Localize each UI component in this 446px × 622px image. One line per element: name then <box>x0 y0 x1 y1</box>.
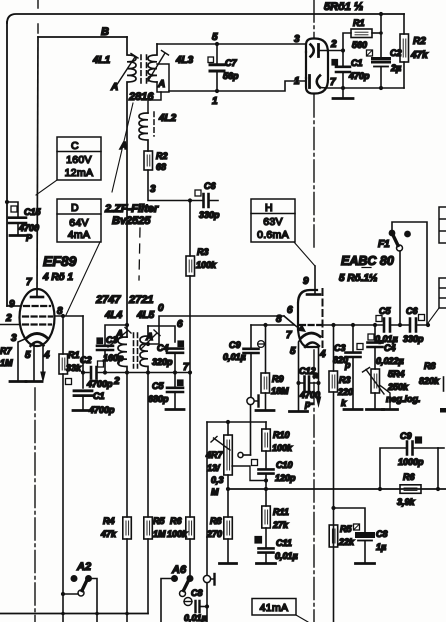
pin 5 wire to ground <box>33 344 35 380</box>
svg-text:A: A <box>157 79 165 90</box>
svg-text:R5: R5 <box>153 516 165 526</box>
ground 5R4 <box>374 393 376 408</box>
svg-text:R7: R7 <box>0 346 12 356</box>
resistor R5 22k <box>329 525 338 547</box>
svg-text:4L3: 4L3 <box>175 55 194 66</box>
svg-text:R9: R9 <box>272 374 284 384</box>
svg-text:4 Rö 1: 4 Rö 1 <box>42 272 73 283</box>
pin 9 wire <box>314 266 316 294</box>
trimmer arrow 4L5 <box>141 330 160 349</box>
ground C5 <box>166 408 184 411</box>
svg-text:4700: 4700 <box>18 223 39 233</box>
svg-text:0,01µ: 0,01µ <box>184 613 207 622</box>
tube diode V1 outline <box>306 39 328 94</box>
svg-text:4R7: 4R7 <box>205 450 224 460</box>
svg-text:5: 5 <box>25 350 31 361</box>
svg-text:R10: R10 <box>273 430 290 440</box>
coil 4L3 <box>148 44 157 82</box>
wire grid input pin 2 <box>0 324 20 326</box>
svg-text:0,022µ: 0,022µ <box>376 356 404 366</box>
wire step 4L3 to 4L2 <box>148 92 161 113</box>
svg-text:C3: C3 <box>334 343 346 353</box>
node C15 junction <box>5 200 9 204</box>
ground R8 270 <box>220 562 237 565</box>
svg-text:3: 3 <box>11 333 17 344</box>
wire A6 unused contact <box>161 579 175 622</box>
diode D2 cathode arc pin 7 <box>317 76 320 88</box>
wire rail to C2 <box>380 14 382 57</box>
jack tape out <box>203 575 210 582</box>
divider dashes inside tube <box>305 57 307 76</box>
svg-text:320p: 320p <box>152 357 173 367</box>
grid dashes EABC80 <box>300 324 322 326</box>
capacitor C9 0.01u <box>250 325 252 348</box>
svg-text:0,01µ: 0,01µ <box>275 551 298 561</box>
connector box fragment top <box>439 207 446 243</box>
wire R3 down <box>189 276 191 373</box>
wire pin8 down <box>82 316 84 388</box>
wire A2 fixed <box>63 593 78 595</box>
svg-text:4mA: 4mA <box>68 229 91 241</box>
svg-text:R2: R2 <box>413 36 426 47</box>
core dashes 4L1-4L3 <box>141 55 147 83</box>
svg-text:C4: C4 <box>384 343 396 353</box>
svg-text:C1: C1 <box>351 58 363 68</box>
pin 5 wire <box>299 338 302 410</box>
svg-text:5R4: 5R4 <box>388 369 405 379</box>
svg-text:A: A <box>115 329 123 340</box>
svg-text:1M: 1M <box>0 358 13 368</box>
trimmer marker C8 <box>184 598 192 606</box>
ground C8 <box>356 562 375 565</box>
svg-text:EF89: EF89 <box>43 253 77 269</box>
node filter bottom 4L4 <box>125 370 129 374</box>
core dash 4L2 <box>153 112 155 136</box>
leader dashed filter <box>139 228 140 280</box>
capacitor C8 1u electrolytic <box>334 508 366 533</box>
leader line filter <box>112 103 133 192</box>
svg-text:5: 5 <box>212 32 218 43</box>
node B corner wire to 4L1 <box>38 36 127 38</box>
node R1 right <box>379 31 383 35</box>
ground C1 <box>73 409 93 412</box>
coil 4L5 <box>140 326 148 373</box>
capacitor C7 56p <box>216 44 218 91</box>
node pin8 junction <box>61 314 65 318</box>
svg-text:C8: C8 <box>191 588 203 598</box>
grid g1 dashes pin 2 <box>23 323 51 325</box>
capacitor C3 820p <box>351 323 355 327</box>
svg-text:470p: 470p <box>348 71 370 81</box>
svg-text:5: 5 <box>290 346 296 357</box>
node 4L4 top <box>125 323 129 327</box>
wire top supply rail <box>7 14 404 23</box>
svg-text:3,9k: 3,9k <box>397 497 416 507</box>
svg-text:C8: C8 <box>376 529 388 539</box>
cathode arcs EABC80 <box>301 333 320 338</box>
pointer H box <box>294 242 315 266</box>
svg-text:1M: 1M <box>153 529 166 539</box>
capacitor C6 330p <box>410 319 416 332</box>
node F1 drop <box>398 323 402 327</box>
svg-text:270: 270 <box>206 529 222 539</box>
svg-text:2: 2 <box>5 313 12 324</box>
svg-text:22k: 22k <box>338 537 355 547</box>
svg-text:R3: R3 <box>339 375 351 385</box>
svg-text:680p: 680p <box>148 394 169 404</box>
connector box fragment mid <box>439 278 446 308</box>
svg-text:1: 1 <box>294 76 300 87</box>
svg-text:A6: A6 <box>171 564 187 576</box>
svg-text:18M: 18M <box>271 386 289 396</box>
box H 63V 0.6mA <box>251 199 295 242</box>
pin 4 heater arrow <box>42 344 44 374</box>
svg-text:560: 560 <box>352 40 367 50</box>
wire R3 220k down <box>333 392 335 622</box>
svg-text:A: A <box>119 141 127 152</box>
capacitor C4 0.022u <box>373 323 377 327</box>
svg-text:p·: p· <box>304 399 314 409</box>
svg-text:H: H <box>265 202 273 214</box>
svg-text:4L1: 4L1 <box>92 55 111 66</box>
jack pickup <box>247 397 254 404</box>
pointer D box <box>66 242 100 315</box>
svg-text:M: M <box>211 487 219 497</box>
svg-text:47k: 47k <box>100 529 117 539</box>
svg-text:4L5: 4L5 <box>136 310 155 321</box>
svg-text:C1: C1 <box>93 391 105 401</box>
svg-text:2721: 2721 <box>128 294 153 306</box>
svg-text:C: C <box>71 140 79 152</box>
svg-text:R11: R11 <box>273 507 289 517</box>
svg-text:F1: F1 <box>378 239 390 250</box>
svg-text:5 Rö.1½: 5 Rö.1½ <box>339 273 377 284</box>
svg-text:2.ZF-Filter: 2.ZF-Filter <box>104 203 159 215</box>
diode D1 cathode arc <box>311 45 314 57</box>
ground C3 <box>344 408 362 411</box>
svg-text:0,3: 0,3 <box>211 475 224 485</box>
node C9 right <box>436 487 440 491</box>
svg-text:k: k <box>341 398 347 408</box>
pointer 41mA <box>296 615 308 622</box>
svg-text:C6: C6 <box>406 306 418 316</box>
svg-text:R4: R4 <box>103 516 115 526</box>
svg-text:220: 220 <box>337 387 353 397</box>
resistor R3 220k <box>331 323 335 327</box>
divider dash-dot top-left <box>37 0 39 33</box>
resistor R11 27k <box>265 489 267 506</box>
svg-text:7: 7 <box>183 362 189 373</box>
trimmer arrow 4L3 <box>148 51 169 82</box>
coil 4L1 <box>127 37 136 337</box>
svg-text:3: 3 <box>150 184 156 195</box>
wire filter bottom <box>105 372 191 374</box>
divider dash-dot left <box>34 388 36 622</box>
svg-text:1000p: 1000p <box>398 457 424 467</box>
resistor R8 270 <box>227 489 229 517</box>
svg-text:100k: 100k <box>167 529 188 539</box>
node R5 22k branch <box>331 506 335 510</box>
capacitor C10 120p <box>265 451 267 469</box>
svg-text:27k: 27k <box>272 520 289 530</box>
svg-text:C5: C5 <box>379 306 391 316</box>
svg-text:Bv2525: Bv2525 <box>112 215 151 227</box>
wiper tap 5R4 <box>380 385 391 408</box>
svg-text:120p: 120p <box>275 473 296 483</box>
svg-text:47k: 47k <box>410 50 428 61</box>
svg-text:6: 6 <box>177 319 183 330</box>
svg-text:68: 68 <box>156 162 166 172</box>
svg-text:R6: R6 <box>170 516 182 526</box>
resistor R2 68 <box>144 151 153 170</box>
svg-text:41mA: 41mA <box>260 602 289 614</box>
resistor R4 47k <box>126 373 128 518</box>
resistor R2 47k <box>403 14 405 34</box>
svg-text:5Rö1 ½: 5Rö1 ½ <box>324 1 363 13</box>
svg-text:C7: C7 <box>225 58 237 68</box>
pin 3 wire to ground <box>18 339 26 381</box>
wire pin 8 anode out <box>55 315 84 317</box>
wire A diagonal to grid <box>284 316 294 325</box>
tube EABC80 dashed edge <box>322 289 324 347</box>
wire R1 down to A2 <box>62 374 64 594</box>
svg-text:0.6mA: 0.6mA <box>257 229 289 241</box>
wire anode feed EF89 pin7 <box>37 37 38 296</box>
svg-text:D: D <box>71 202 79 214</box>
box D 64V 4mA <box>57 199 101 242</box>
svg-text:0,01µ: 0,01µ <box>375 334 398 344</box>
svg-text:0: 0 <box>158 303 164 314</box>
svg-text:330p: 330p <box>403 334 424 344</box>
svg-text:C2: C2 <box>80 355 92 365</box>
ground R9 <box>265 393 267 409</box>
node C2 bottom <box>379 86 383 90</box>
pin 4 heater arrow EABC80 <box>318 347 320 399</box>
wire F1 feed <box>392 222 427 325</box>
svg-text:63V: 63V <box>263 216 283 228</box>
svg-text:a: a <box>313 370 318 380</box>
coil 4L2 <box>139 113 148 151</box>
capacitor C5 0.01u <box>384 319 390 332</box>
svg-text:7: 7 <box>330 77 336 88</box>
wire tap 6 to C4 <box>148 326 175 342</box>
svg-text:B: B <box>101 26 109 38</box>
svg-text:R2: R2 <box>156 151 168 161</box>
capacitor C2 2u electrolytic <box>373 59 390 63</box>
divider dash-dot main <box>313 0 315 622</box>
wire R2 to C6 node <box>148 170 190 201</box>
svg-text:R8: R8 <box>210 516 222 526</box>
box C 160V 12mA <box>57 137 101 180</box>
svg-text:2: 2 <box>330 39 337 50</box>
wire tap 0 <box>148 316 284 344</box>
core dashes 4L4-4L5 <box>134 333 138 368</box>
node filter bottom left <box>103 370 107 374</box>
svg-text:4700p: 4700p <box>86 379 113 389</box>
svg-text:C9: C9 <box>400 431 412 441</box>
svg-text:R6: R6 <box>403 472 415 482</box>
wiper 4R7 <box>238 452 243 457</box>
svg-text:100k: 100k <box>196 260 217 270</box>
ground C15 <box>10 234 26 237</box>
switch F1 <box>399 251 401 325</box>
node wire end <box>426 323 430 327</box>
svg-text:1µ: 1µ <box>376 542 386 552</box>
resistor R3 100k <box>189 201 191 257</box>
svg-text:56p: 56p <box>223 71 239 81</box>
svg-text:R3: R3 <box>197 247 209 257</box>
diode D1 anode plate pin 2 <box>317 45 320 57</box>
wire B grid line <box>251 324 294 326</box>
grid g2 dashes <box>23 315 52 317</box>
svg-text:R5: R5 <box>340 524 352 534</box>
capacitor C15 4700p <box>7 202 18 234</box>
node filter bottom C4 <box>173 370 177 374</box>
svg-text:C6: C6 <box>204 181 216 191</box>
node 1 junction <box>215 89 219 93</box>
wire 4R7 bottom <box>227 475 229 489</box>
svg-text:3: 3 <box>294 34 300 45</box>
resistor R5 1M <box>147 373 149 518</box>
svg-text:330p: 330p <box>199 210 220 220</box>
capacitor C4 320p <box>167 349 183 353</box>
svg-text:A: A <box>110 82 118 93</box>
svg-text:7: 7 <box>286 330 292 341</box>
svg-text:A: A <box>145 332 153 343</box>
tap 4R7 loudness <box>232 466 266 481</box>
node anode junction <box>341 48 345 52</box>
capacitor C1 4700p <box>74 391 92 396</box>
ground C11 <box>257 562 276 565</box>
svg-text:C10: C10 <box>276 460 293 470</box>
capacitor C11 0.01u <box>265 528 267 548</box>
svg-text:4L2: 4L2 <box>158 113 177 124</box>
svg-text:12mA: 12mA <box>65 167 94 179</box>
resistor R9 1.8M <box>265 325 267 373</box>
capacitor C8 0.01u <box>196 601 200 612</box>
pin 7 anode bar <box>31 296 43 299</box>
resistor R10 100k <box>265 422 267 429</box>
node filter bottom 4L5 <box>146 370 150 374</box>
svg-text:2: 2 <box>113 376 120 387</box>
svg-text:2747: 2747 <box>95 294 121 306</box>
pointer box to wire <box>428 308 439 323</box>
tube EF89 outline <box>20 289 55 346</box>
svg-text:2816: 2816 <box>128 91 154 103</box>
ground pin 5 <box>290 410 308 413</box>
wire A box to node 1 and diode cathode <box>169 81 306 91</box>
capacitor C3 160p <box>105 325 127 373</box>
svg-text:7: 7 <box>26 277 32 288</box>
svg-text:C11: C11 <box>276 538 292 548</box>
svg-text:C4: C4 <box>157 343 169 353</box>
resistor R6 3.9k <box>400 485 421 494</box>
svg-text:4: 4 <box>319 349 326 360</box>
wire pin 9 <box>7 305 21 307</box>
A box 4L3 <box>157 64 169 92</box>
resistor R8 820k fragment <box>443 377 445 391</box>
wire main AF bus <box>228 488 446 490</box>
wire cathode return <box>343 87 404 89</box>
capacitor C9 1000p <box>378 487 382 491</box>
wire left supply line <box>6 22 8 306</box>
capacitor C6 330p <box>190 200 218 202</box>
svg-text:1: 1 <box>212 96 218 107</box>
wire bottom bus <box>0 613 148 615</box>
anode bar EABC80 <box>307 293 320 296</box>
resistor R6 100k <box>189 373 191 518</box>
ground C1 <box>342 72 344 97</box>
trimmer arrow 4L4 <box>108 328 131 348</box>
trimmer arrow 4L1 <box>116 54 138 87</box>
potentiometer 5R4 250k <box>371 369 380 393</box>
svg-text:R1: R1 <box>353 18 365 28</box>
svg-text:8: 8 <box>276 314 282 325</box>
node filter bottom R3 <box>188 370 192 374</box>
svg-text:C5: C5 <box>152 381 164 391</box>
svg-text:2µ: 2µ <box>390 63 401 73</box>
svg-text:p: p <box>344 360 351 370</box>
svg-text:C9: C9 <box>229 340 241 350</box>
wire 4L3 top to node 5 <box>157 43 306 45</box>
svg-text:160V: 160V <box>66 154 92 166</box>
coil 4L4 <box>118 337 127 373</box>
resistor R1 33k <box>62 316 64 354</box>
tube EABC80 outline <box>298 290 318 347</box>
svg-text:820k: 820k <box>419 376 440 386</box>
svg-text:4: 4 <box>43 350 50 361</box>
svg-text:9: 9 <box>9 299 15 310</box>
capacitor C1 470p <box>342 51 344 67</box>
grid arrow <box>294 325 299 329</box>
svg-text:0,01µ: 0,01µ <box>223 352 246 362</box>
svg-text:R8: R8 <box>424 361 436 371</box>
wire A2 lever out <box>89 579 98 622</box>
grid g3 dashes pin 9 <box>24 305 50 307</box>
potentiometer 4R7 volume <box>226 420 230 424</box>
capacitor C2 4700p <box>83 372 105 374</box>
cathode arcs <box>26 334 48 339</box>
wire main AF line <box>324 324 428 326</box>
svg-text:R1: R1 <box>68 350 80 360</box>
svg-text:neg.log.: neg.log. <box>386 394 421 404</box>
resistor R1 560 <box>343 33 351 51</box>
capacitor C5 680p <box>174 373 176 388</box>
node 5 junction <box>215 42 219 46</box>
svg-text:6: 6 <box>287 305 293 316</box>
wire tone line <box>207 421 266 423</box>
svg-text:64V: 64V <box>69 217 89 229</box>
svg-text:13/: 13/ <box>207 463 221 473</box>
box 41mA <box>252 599 296 616</box>
svg-text:EABC 80: EABC 80 <box>341 254 394 268</box>
svg-text:9: 9 <box>303 276 309 287</box>
capacitor C12 4700p <box>299 382 319 384</box>
node C6 junction <box>188 198 192 202</box>
svg-text:100k: 100k <box>272 443 293 453</box>
pointer C box <box>36 180 57 195</box>
diode D2 anode plate <box>308 76 311 88</box>
svg-text:A2: A2 <box>76 561 91 573</box>
svg-text:4L4: 4L4 <box>104 310 123 321</box>
svg-text:250k: 250k <box>387 382 409 392</box>
svg-text:C15: C15 <box>24 207 42 217</box>
